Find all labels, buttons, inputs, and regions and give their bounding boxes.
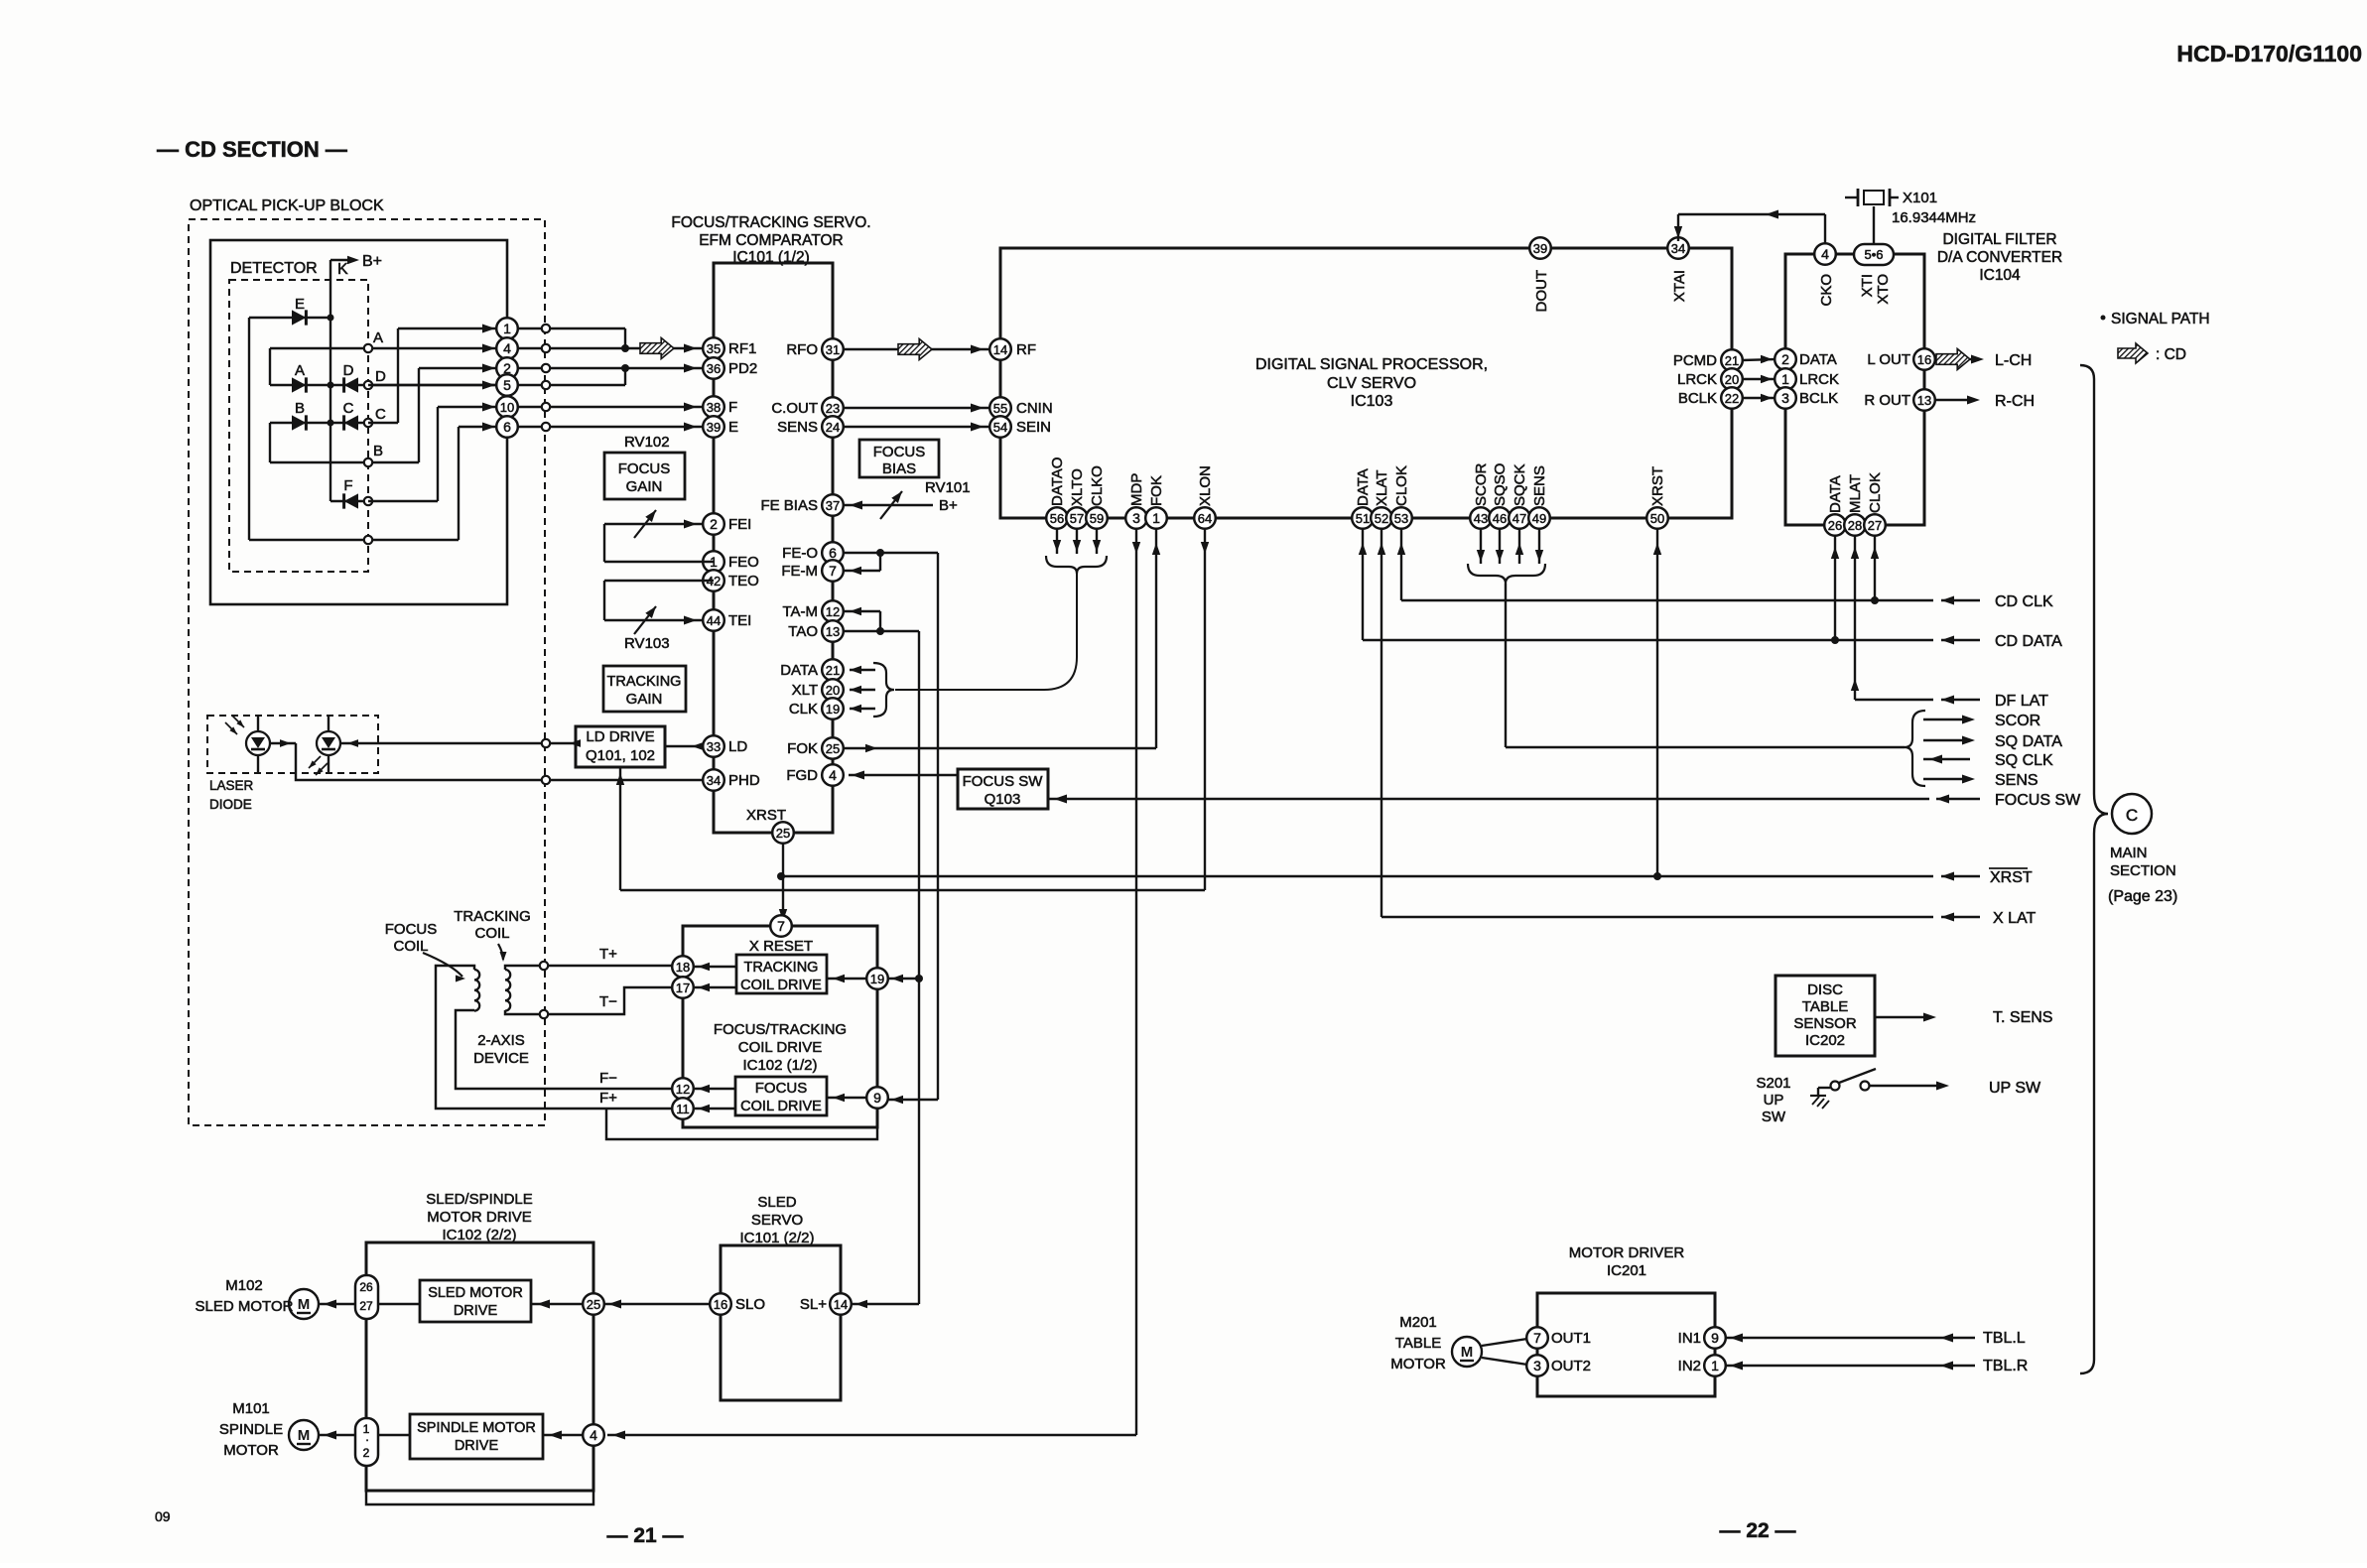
svg-text:COIL: COIL [474, 925, 509, 942]
svg-text:27: 27 [1868, 518, 1882, 533]
svg-text:20: 20 [826, 683, 840, 698]
svg-text:4: 4 [1821, 246, 1829, 262]
svg-text:10: 10 [500, 400, 514, 415]
svg-text:1: 1 [1152, 510, 1160, 526]
svg-text:25: 25 [776, 826, 790, 841]
svg-text:34: 34 [707, 773, 721, 788]
svg-text:IC202: IC202 [1805, 1032, 1845, 1049]
svg-text:UP SW: UP SW [1989, 1080, 2041, 1097]
svg-text:DF LAT: DF LAT [1995, 693, 2048, 710]
svg-text:11: 11 [676, 1102, 690, 1116]
svg-text:MAIN: MAIN [2110, 845, 2148, 861]
svg-text:.: . [365, 1430, 368, 1444]
svg-text:BCLK: BCLK [1799, 390, 1838, 407]
svg-text:SQ CLK: SQ CLK [1995, 752, 2053, 769]
svg-text:D: D [375, 368, 386, 385]
svg-text:XLTO: XLTO [1069, 468, 1086, 506]
svg-text:LD DRIVE: LD DRIVE [586, 728, 654, 745]
svg-text:7: 7 [777, 918, 785, 934]
svg-text:FOCUS: FOCUS [873, 444, 926, 460]
svg-text:— 21 —: — 21 — [606, 1524, 683, 1547]
svg-text:9: 9 [1711, 1330, 1719, 1346]
svg-text:44: 44 [707, 613, 721, 628]
svg-text:34: 34 [1671, 241, 1685, 256]
svg-text:33: 33 [707, 739, 721, 754]
svg-text:BCLK: BCLK [1678, 390, 1717, 407]
svg-text:CD DATA: CD DATA [1995, 633, 2062, 650]
svg-text:E: E [728, 419, 738, 436]
svg-text:SLED/SPINDLE: SLED/SPINDLE [426, 1191, 533, 1208]
svg-text:T. SENS: T. SENS [1993, 1009, 2052, 1026]
svg-text:IC102 (2/2): IC102 (2/2) [442, 1227, 516, 1243]
svg-text:SENS: SENS [777, 419, 818, 436]
svg-text:9: 9 [873, 1090, 881, 1106]
svg-text:DATA: DATA [1355, 468, 1372, 506]
svg-text:C: C [2126, 806, 2138, 825]
svg-text:FGD: FGD [786, 767, 818, 784]
svg-text:14: 14 [834, 1297, 848, 1312]
svg-text:IN2: IN2 [1678, 1358, 1701, 1374]
svg-text:DATA: DATA [1827, 475, 1844, 513]
svg-text:SLED MOTOR: SLED MOTOR [428, 1285, 523, 1301]
svg-text:16: 16 [1917, 352, 1931, 367]
svg-text:: CD: : CD [2156, 346, 2186, 363]
svg-text:SECTION: SECTION [2110, 862, 2176, 879]
svg-text:39: 39 [1533, 241, 1547, 256]
svg-text:DRIVE: DRIVE [455, 1438, 499, 1454]
svg-text:DIODE: DIODE [209, 797, 252, 812]
svg-text:57: 57 [1070, 511, 1084, 526]
svg-text:OPTICAL PICK-UP BLOCK: OPTICAL PICK-UP BLOCK [190, 197, 384, 214]
svg-text:A: A [373, 329, 383, 346]
svg-text:UP: UP [1764, 1092, 1784, 1109]
svg-text:SENS: SENS [1995, 772, 2038, 789]
svg-text:DATA: DATA [1799, 351, 1837, 368]
svg-text:43: 43 [1474, 511, 1488, 526]
svg-text:F: F [728, 399, 737, 416]
svg-text:2: 2 [1781, 351, 1789, 367]
svg-text:S201: S201 [1756, 1075, 1790, 1092]
svg-text:5: 5 [503, 377, 511, 393]
svg-text:C: C [343, 400, 354, 417]
svg-text:D/A CONVERTER: D/A CONVERTER [1937, 249, 2062, 266]
svg-text:55: 55 [993, 401, 1007, 416]
svg-text:B+: B+ [362, 253, 382, 270]
svg-text:MOTOR: MOTOR [1390, 1356, 1446, 1372]
svg-text:B: B [373, 443, 383, 459]
svg-text:PD2: PD2 [728, 360, 757, 377]
svg-text:BIAS: BIAS [882, 460, 916, 477]
svg-text:09: 09 [155, 1508, 171, 1524]
svg-text:FOK: FOK [1148, 475, 1165, 506]
svg-text:DOUT: DOUT [1533, 270, 1550, 313]
svg-text:M101: M101 [232, 1400, 270, 1417]
svg-text:1: 1 [503, 321, 511, 336]
svg-text:24: 24 [826, 420, 840, 435]
svg-text:SLED: SLED [757, 1194, 796, 1211]
svg-text:C: C [375, 406, 386, 423]
svg-text:SCOR: SCOR [1473, 462, 1490, 506]
svg-text:LD: LD [728, 738, 747, 755]
svg-text:19: 19 [826, 702, 840, 717]
svg-text:EFM COMPARATOR: EFM COMPARATOR [699, 232, 844, 249]
svg-text:DISC: DISC [1807, 981, 1843, 998]
svg-text:GAIN: GAIN [626, 691, 663, 708]
svg-text:50: 50 [1650, 511, 1664, 526]
svg-text:F+: F+ [599, 1090, 617, 1107]
svg-text:L-CH: L-CH [1995, 352, 2032, 369]
svg-text:IC102 (1/2): IC102 (1/2) [742, 1057, 817, 1074]
svg-text:DIGITAL SIGNAL PROCESSOR,: DIGITAL SIGNAL PROCESSOR, [1255, 356, 1488, 373]
svg-text:SENSOR: SENSOR [1793, 1015, 1857, 1032]
svg-text:CKO: CKO [1818, 274, 1835, 307]
svg-text:IC103: IC103 [1351, 393, 1393, 410]
svg-text:2: 2 [363, 1446, 370, 1460]
svg-text:25: 25 [587, 1297, 600, 1312]
svg-text:16.9344MHz: 16.9344MHz [1892, 209, 1976, 226]
svg-text:L OUT: L OUT [1867, 351, 1910, 368]
svg-text:1: 1 [1781, 371, 1789, 387]
svg-text:4: 4 [829, 767, 837, 783]
svg-text:LASER: LASER [209, 778, 254, 793]
svg-text:FOCUS/TRACKING: FOCUS/TRACKING [714, 1021, 847, 1038]
svg-text:PCMD: PCMD [1673, 352, 1717, 369]
svg-text:RFO: RFO [786, 341, 818, 358]
svg-text:TRACKING: TRACKING [607, 674, 682, 690]
svg-text:CLKO: CLKO [1089, 465, 1106, 506]
svg-text:22: 22 [1725, 391, 1739, 406]
svg-text:36: 36 [707, 361, 721, 376]
svg-text:DATAO: DATAO [1049, 457, 1066, 506]
svg-text:4: 4 [590, 1427, 597, 1443]
svg-text:XTO: XTO [1875, 274, 1892, 305]
svg-text:FOCUS/TRACKING SERVO.: FOCUS/TRACKING SERVO. [671, 214, 870, 231]
svg-text:38: 38 [707, 400, 721, 415]
svg-text:CD CLK: CD CLK [1995, 593, 2053, 610]
svg-text:LRCK: LRCK [1677, 371, 1717, 388]
svg-text:MDP: MDP [1128, 473, 1145, 506]
svg-text:SL+: SL+ [800, 1296, 827, 1313]
svg-text:F: F [343, 477, 352, 494]
svg-text:Q103: Q103 [985, 791, 1021, 808]
svg-text:TEO: TEO [728, 573, 759, 589]
svg-text:DIGITAL FILTER: DIGITAL FILTER [1942, 231, 2056, 248]
svg-text:6: 6 [503, 419, 511, 435]
svg-text:PHD: PHD [728, 772, 760, 789]
svg-text:MOTOR DRIVER: MOTOR DRIVER [1569, 1244, 1685, 1261]
svg-text:CLOK: CLOK [1867, 472, 1884, 513]
svg-text:SENS: SENS [1531, 465, 1548, 506]
svg-text:2: 2 [710, 516, 718, 532]
svg-text:2-AXIS: 2-AXIS [477, 1032, 525, 1049]
svg-text:FOCUS: FOCUS [755, 1080, 808, 1097]
svg-text:19: 19 [870, 972, 884, 986]
svg-text:TRACKING: TRACKING [744, 960, 819, 976]
svg-text:26: 26 [359, 1280, 373, 1294]
svg-text:TEI: TEI [728, 612, 751, 629]
svg-text:4: 4 [503, 340, 511, 356]
svg-text:21: 21 [1725, 353, 1739, 368]
svg-text:SLED MOTOR: SLED MOTOR [196, 1298, 294, 1315]
svg-text:TABLE: TABLE [1395, 1335, 1441, 1352]
svg-text:SQCK: SQCK [1512, 463, 1528, 506]
svg-text:DEVICE: DEVICE [473, 1050, 529, 1067]
svg-text:IC101 (2/2): IC101 (2/2) [739, 1230, 814, 1246]
svg-text:M201: M201 [1399, 1314, 1437, 1331]
svg-text:MLAT: MLAT [1847, 474, 1864, 513]
svg-text:64: 64 [1198, 511, 1212, 526]
svg-text:GAIN: GAIN [626, 478, 663, 495]
svg-text:IN1: IN1 [1678, 1330, 1701, 1347]
svg-text:20: 20 [1725, 372, 1739, 387]
svg-text:59: 59 [1090, 511, 1104, 526]
svg-text:SQSO: SQSO [1492, 463, 1509, 506]
svg-text:54: 54 [993, 420, 1007, 435]
svg-text:56: 56 [1050, 511, 1064, 526]
svg-text:12: 12 [676, 1082, 690, 1097]
svg-text:B+: B+ [939, 497, 958, 514]
svg-text:47: 47 [1512, 511, 1526, 526]
svg-text:XLON: XLON [1197, 465, 1214, 506]
svg-text:35: 35 [707, 341, 721, 356]
svg-text:M: M [1461, 1344, 1474, 1361]
svg-text:DATA: DATA [780, 662, 818, 679]
svg-text:OUT1: OUT1 [1551, 1330, 1591, 1347]
svg-text:SQ DATA: SQ DATA [1995, 733, 2062, 750]
svg-text:COIL DRIVE: COIL DRIVE [738, 1039, 822, 1056]
svg-text:SERVO: SERVO [751, 1212, 803, 1229]
svg-text:16: 16 [714, 1297, 727, 1312]
svg-text:FE-O: FE-O [782, 545, 818, 562]
svg-text:13: 13 [1917, 393, 1931, 408]
svg-text:6: 6 [829, 545, 837, 561]
svg-text:FOCUS: FOCUS [618, 460, 671, 477]
svg-text:SPINDLE MOTOR: SPINDLE MOTOR [417, 1420, 536, 1436]
svg-text:FOK: FOK [787, 740, 818, 757]
svg-text:M102: M102 [225, 1277, 263, 1294]
svg-text:M: M [298, 1296, 311, 1313]
svg-text:SEIN: SEIN [1016, 419, 1051, 436]
svg-text:39: 39 [707, 420, 721, 435]
svg-text:TAO: TAO [788, 623, 818, 640]
svg-text:D: D [343, 362, 354, 379]
svg-text:COIL DRIVE: COIL DRIVE [740, 1099, 822, 1114]
svg-text:28: 28 [1848, 518, 1862, 533]
svg-text:RV101: RV101 [925, 479, 971, 496]
svg-text:TRACKING: TRACKING [454, 908, 531, 925]
svg-text:TABLE: TABLE [1802, 998, 1848, 1015]
svg-text:FOCUS: FOCUS [385, 921, 438, 938]
svg-text:SIGNAL PATH: SIGNAL PATH [2111, 311, 2210, 327]
svg-text:DETECTOR: DETECTOR [230, 260, 318, 277]
svg-text:TA-M: TA-M [782, 603, 818, 620]
svg-text:IC101 (1/2): IC101 (1/2) [732, 249, 810, 266]
svg-text:1: 1 [1711, 1358, 1719, 1373]
svg-text:RF: RF [1016, 341, 1036, 358]
svg-text:MOTOR: MOTOR [223, 1442, 279, 1459]
svg-text:R OUT: R OUT [1864, 392, 1910, 409]
svg-text:CLK: CLK [789, 701, 818, 718]
svg-text:XTI: XTI [1859, 274, 1876, 297]
svg-text:SCOR: SCOR [1995, 713, 2040, 729]
svg-text:SLO: SLO [735, 1296, 765, 1313]
svg-text:RV103: RV103 [624, 635, 670, 652]
svg-text:F−: F− [599, 1070, 617, 1087]
svg-text:XRST: XRST [1990, 869, 2033, 886]
svg-text:21: 21 [826, 663, 840, 678]
svg-text:FOCUS SW: FOCUS SW [1995, 792, 2081, 809]
svg-text:18: 18 [676, 960, 690, 975]
svg-text:25: 25 [826, 741, 840, 756]
svg-text:DRIVE: DRIVE [454, 1303, 498, 1319]
svg-text:FE BIAS: FE BIAS [760, 497, 818, 514]
svg-text:XLT: XLT [792, 682, 818, 699]
svg-text:— CD SECTION —: — CD SECTION — [157, 137, 347, 162]
svg-text:X101: X101 [1903, 190, 1937, 206]
svg-text:3: 3 [1132, 510, 1140, 526]
svg-text:MOTOR DRIVE: MOTOR DRIVE [427, 1209, 532, 1226]
svg-text:FEO: FEO [728, 554, 759, 571]
svg-text:17: 17 [676, 980, 690, 995]
svg-text:OUT2: OUT2 [1551, 1358, 1591, 1374]
svg-text:LRCK: LRCK [1799, 371, 1839, 388]
svg-text:27: 27 [359, 1299, 373, 1313]
svg-text:CLV SERVO: CLV SERVO [1327, 375, 1416, 392]
svg-text:TBL.R: TBL.R [1983, 1358, 2028, 1374]
svg-text:X LAT: X LAT [1993, 910, 2037, 927]
svg-text:3: 3 [1781, 390, 1789, 406]
svg-text:COIL DRIVE: COIL DRIVE [740, 978, 822, 993]
svg-text:XRST: XRST [746, 807, 786, 824]
svg-text:26: 26 [1828, 518, 1842, 533]
svg-text:14: 14 [993, 342, 1007, 357]
svg-text:52: 52 [1375, 511, 1388, 526]
svg-text:CNIN: CNIN [1016, 400, 1053, 417]
svg-text:K: K [337, 261, 348, 278]
svg-text:T+: T+ [599, 946, 617, 963]
svg-text:5•6: 5•6 [1864, 247, 1883, 262]
svg-text:37: 37 [826, 498, 840, 513]
svg-text:TBL.L: TBL.L [1983, 1330, 2026, 1347]
svg-text:XLAT: XLAT [1374, 470, 1390, 506]
svg-text:RF1: RF1 [728, 340, 756, 357]
svg-text:SW: SW [1762, 1109, 1786, 1125]
svg-text:XRST: XRST [1649, 466, 1666, 506]
svg-text:SPINDLE: SPINDLE [219, 1421, 283, 1438]
svg-text:B: B [295, 400, 305, 417]
svg-text:T−: T− [599, 993, 617, 1010]
svg-text:Q101, 102: Q101, 102 [586, 747, 655, 764]
svg-text:46: 46 [1493, 511, 1507, 526]
svg-text:IC201: IC201 [1607, 1262, 1646, 1279]
svg-text:3: 3 [1533, 1358, 1541, 1373]
svg-text:A: A [295, 362, 305, 379]
svg-text:7: 7 [829, 563, 837, 579]
svg-text:R-CH: R-CH [1995, 393, 2035, 410]
svg-text:HCD-D170/G1100: HCD-D170/G1100 [2176, 41, 2362, 66]
svg-text:FOCUS SW: FOCUS SW [963, 773, 1044, 790]
svg-text:7: 7 [1533, 1330, 1541, 1346]
svg-text:FEI: FEI [728, 516, 751, 533]
svg-text:12: 12 [826, 604, 840, 619]
svg-text:53: 53 [1394, 511, 1408, 526]
svg-text:23: 23 [826, 401, 840, 416]
svg-text:XTAI: XTAI [1671, 270, 1688, 302]
svg-text:51: 51 [1356, 511, 1370, 526]
svg-text:IC104: IC104 [1979, 267, 2021, 284]
svg-text:13: 13 [826, 624, 840, 639]
svg-text:RV102: RV102 [624, 434, 670, 451]
svg-text:31: 31 [826, 342, 840, 357]
svg-text:49: 49 [1532, 511, 1546, 526]
svg-text:FE-M: FE-M [781, 563, 818, 580]
svg-text:CLOK: CLOK [1393, 465, 1410, 506]
svg-text:M: M [298, 1427, 311, 1444]
svg-text:— 22 —: — 22 — [1719, 1519, 1795, 1542]
svg-text:(Page 23): (Page 23) [2108, 888, 2177, 905]
svg-text:C.OUT: C.OUT [771, 400, 818, 417]
svg-text:E: E [295, 296, 305, 313]
svg-text:X RESET: X RESET [749, 938, 813, 955]
